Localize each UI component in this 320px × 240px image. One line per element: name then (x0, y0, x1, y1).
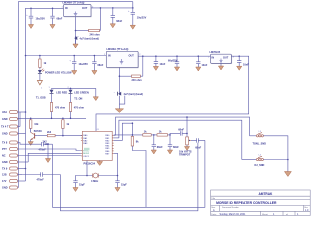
resistor R7 1k (62, 118, 70, 136)
capacitor C10 (168, 56, 179, 67)
wire down right long (53, 140, 205, 207)
svg-text:T1_OSB: T1_OSB (36, 97, 46, 100)
capacitor C2 (50, 8, 63, 24)
svg-text:4 MHz: 4 MHz (91, 180, 99, 183)
ground (196, 67, 201, 71)
wire reg2 input (26, 55, 107, 57)
svg-text:IN: IN (65, 7, 68, 10)
ground (174, 67, 179, 71)
ground (28, 25, 33, 29)
svg-text:68nF: 68nF (173, 146, 179, 149)
connector J2 pins (2, 141, 81, 171)
capacitor C1 (26, 8, 45, 24)
ground (28, 142, 33, 146)
svg-text:4u7 (tant) (bead): 4u7 (tant) (bead) (124, 93, 144, 96)
svg-text:68nF: 68nF (195, 147, 201, 150)
ground (167, 150, 172, 154)
svg-text:Sunday, March 04, 2001: Sunday, March 04, 2001 (220, 213, 247, 216)
svg-text:VAA: VAA (2, 111, 7, 114)
svg-text:DJ_SND: DJ_SND (255, 164, 265, 167)
resistor R10 1k (143, 130, 157, 136)
capacitor C16 series out (195, 138, 205, 149)
svg-text:Date:: Date: (211, 213, 217, 216)
wire IC pin stubs to rails (114, 134, 116, 136)
svg-text:15pF: 15pF (121, 184, 127, 187)
capacitor C17 coupling (39, 141, 53, 152)
capacitor C4 (128, 8, 147, 25)
svg-text:RTCC: RTCC (83, 150, 89, 152)
ground (151, 150, 156, 154)
svg-text:NC: NC (2, 155, 6, 158)
wire down left long (60, 143, 198, 211)
svg-text:IN: IN (108, 55, 111, 58)
capacitor C9 (154, 56, 166, 66)
svg-text:10nF: 10nF (243, 64, 249, 67)
resistor R8 2k2 (37, 131, 82, 137)
svg-text:470 ohm: 470 ohm (55, 107, 66, 110)
ground (153, 66, 158, 70)
resistor R adj1 240ohm (76, 8, 101, 36)
ground (50, 25, 55, 29)
svg-text:OSC1: OSC1 (83, 156, 90, 158)
capacitor C19 (73, 176, 92, 188)
resistor R adj2 240ohm (119, 56, 142, 82)
ground (92, 71, 97, 75)
svg-text:TX 9: TX 9 (2, 168, 8, 171)
svg-text:4u7 (tant) (bead): 4u7 (tant) (bead) (80, 37, 100, 40)
ground arrow (37, 74, 42, 85)
capacitor C11 (196, 56, 208, 67)
wire net to L4 (242, 159, 256, 161)
svg-text:240 ohm: 240 ohm (132, 79, 143, 82)
wire top rail left (19, 2, 133, 112)
ground arrow right (284, 160, 291, 177)
svg-text:MCLR: MCLR (83, 153, 89, 155)
svg-text:Document Number: Document Number (222, 206, 239, 209)
wire reg1 adj (75, 17, 77, 45)
svg-text:2k2: 2k2 (47, 131, 52, 134)
svg-text:PTT: PTT (2, 148, 7, 151)
capacitor C6 (69, 56, 88, 71)
ground (110, 24, 115, 28)
ground arrow (115, 104, 123, 112)
ground under IC (97, 161, 103, 166)
wire rail4 (122, 123, 132, 140)
wire osc1 (86, 161, 88, 176)
wire reg3 output to +5 rail (96, 56, 249, 131)
ground (115, 188, 120, 192)
wire from resistor bottom down (132, 146, 146, 207)
wire L3 out (263, 136, 288, 160)
svg-text:GND: GND (2, 161, 8, 164)
svg-text:T2_ON: T2_ON (74, 98, 82, 101)
svg-text:LM340A (TT1+Adj): LM340A (TT1+Adj) (107, 48, 129, 51)
svg-text:GND: GND (2, 118, 8, 121)
capacitor C13 (152, 134, 164, 150)
svg-text:12B: 12B (2, 174, 7, 177)
svg-text:LM340A (TT1+Adj): LM340A (TT1+Adj) (63, 1, 85, 4)
svg-text:TRIMPOT: TRIMPOT (179, 154, 191, 157)
wire L4 out (263, 159, 288, 161)
svg-text:2k2: 2k2 (43, 141, 48, 144)
trimpot R12 (179, 116, 197, 156)
resistor R4 470ohm (50, 103, 66, 119)
svg-text:OUT: OUT (129, 55, 135, 58)
inductor L3 (253, 131, 267, 146)
svg-text:68nF: 68nF (157, 146, 163, 149)
svg-text:17V: 17V (2, 180, 7, 183)
regulator VR1 LM340 (62, 1, 95, 17)
svg-text:IN: IN (212, 57, 215, 60)
title block (211, 190, 311, 216)
svg-text:OUT: OUT (82, 7, 88, 10)
capacitor C15 series (170, 128, 187, 135)
svg-text:10k: 10k (34, 123, 39, 126)
svg-text:POWER LED YELLOW: POWER LED YELLOW (45, 72, 72, 75)
svg-text:TX 8: TX 8 (2, 142, 8, 145)
wire pullup rail (18, 117, 87, 119)
wire audio pin out (114, 134, 143, 136)
capacitor C12 (237, 56, 249, 66)
LED D3 green (68, 87, 89, 103)
wire rail B lower (25, 134, 27, 182)
wire osc2 (98, 153, 117, 175)
svg-text:68nF: 68nF (116, 20, 122, 23)
capacitor C20 (115, 176, 127, 188)
wire rail2 (116, 117, 250, 136)
ground under trimpot (184, 145, 189, 150)
svg-text:GND: GND (2, 187, 8, 190)
IC U1 PIC16C54 (81, 129, 114, 165)
LED D1 power (38, 69, 72, 90)
ground (93, 88, 98, 100)
svg-text:10u/25V: 10u/25V (137, 16, 147, 19)
connector J1 pins (1, 110, 26, 135)
svg-text:BC548: BC548 (34, 130, 42, 133)
regulator VR3 LM78L05 (208, 51, 235, 64)
capacitor C14 (168, 134, 180, 150)
wire rail A lower (18, 112, 20, 188)
svg-text:68nF: 68nF (98, 64, 104, 67)
svg-text:LED RED: LED RED (56, 91, 67, 94)
svg-text:LED GREEN: LED GREEN (74, 91, 89, 94)
svg-text:TONL_SND: TONL_SND (253, 143, 267, 146)
wire rail3 (119, 120, 242, 159)
svg-text:10u/25V: 10u/25V (79, 63, 89, 66)
ground (73, 44, 78, 48)
svg-text:15pF: 15pF (79, 184, 85, 187)
ground (73, 188, 78, 192)
svg-text:GND: GND (2, 133, 8, 136)
capacitor C18 coupling (22, 172, 60, 181)
wire reg1 output (91, 2, 133, 8)
wire reg2 output (138, 55, 210, 57)
connector J3 pins (2, 173, 26, 190)
wire LED rail (52, 87, 96, 89)
capacitor tantalum C8 (114, 92, 144, 104)
svg-text:PIC16C54: PIC16C54 (84, 163, 96, 166)
resistor R9 vertical (131, 122, 139, 146)
ground stub (45, 143, 50, 162)
svg-text:LM78L05: LM78L05 (210, 51, 221, 54)
svg-text:470 ohm: 470 ohm (74, 107, 85, 110)
wire reg2 adj (118, 68, 120, 96)
LED D2 red (49, 87, 68, 103)
svg-text:TX 4 T: TX 4 T (1, 126, 9, 129)
transistor Q1 BC548 (31, 128, 43, 141)
ground (237, 66, 242, 70)
svg-text:10nF: 10nF (202, 64, 208, 67)
resistor R5 470ohm (69, 103, 84, 119)
wire rail B mid (25, 56, 27, 134)
svg-text:68nF: 68nF (57, 18, 63, 21)
svg-text:10nF: 10nF (160, 63, 166, 66)
inductor L4 (255, 155, 265, 168)
capacitor tantalum C5 (74, 36, 99, 44)
crystal Y1 (91, 173, 99, 183)
resistor R11 1k (157, 130, 170, 136)
node reg1 input junctions (30, 8, 32, 10)
ground under VR3 (218, 63, 223, 70)
svg-text:10u/25V: 10u/25V (36, 18, 46, 21)
svg-text:OUT: OUT (223, 57, 229, 60)
svg-text:Sheet: Sheet (262, 213, 268, 216)
svg-text:MORSE ID REPEATER CONTROLLER: MORSE ID REPEATER CONTROLLER (216, 201, 277, 205)
ground (72, 71, 77, 75)
resistor R3 1k power led (39, 56, 47, 70)
svg-text:240 ohm: 240 ohm (90, 33, 101, 36)
ground (130, 25, 135, 29)
svg-text:470nF: 470nF (39, 149, 47, 152)
regulator VR2 LM340 (104, 48, 141, 68)
resistor R6 10k (30, 118, 39, 132)
capacitor C7 (92, 56, 104, 71)
svg-text:AMTRAK: AMTRAK (259, 192, 274, 196)
svg-text:470nF: 470nF (37, 179, 45, 182)
wire net to L3 (250, 135, 257, 137)
svg-text:68nF: 68nF (178, 128, 184, 131)
capacitor C3 (111, 8, 123, 24)
wire input rail (26, 8, 64, 55)
